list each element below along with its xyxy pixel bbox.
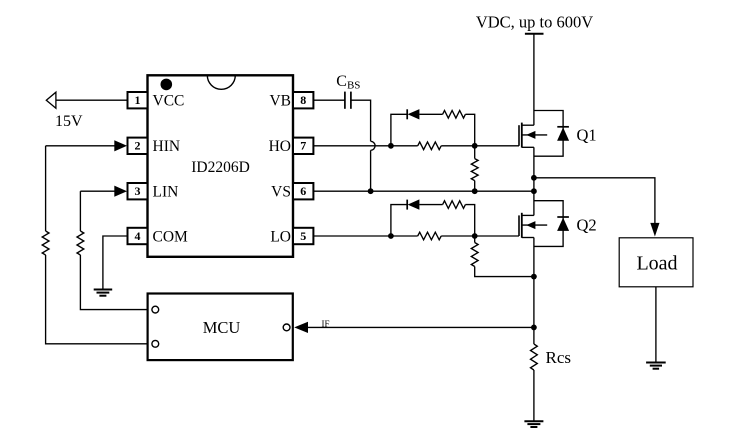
wire pulldown to VS line bbox=[474, 181, 476, 192]
diode D1 (turn-off) bbox=[407, 109, 419, 119]
wire VDC down to Q1 drain bbox=[533, 34, 535, 125]
IC notch bbox=[207, 75, 235, 89]
wire pulldown to Q2 source node bbox=[475, 267, 534, 277]
wire cap to VS node (with hop over HO) bbox=[351, 100, 375, 191]
svg-text:15V: 15V bbox=[55, 113, 83, 130]
ground COM bbox=[94, 289, 113, 291]
wire Q1 gate-network upper branch left bbox=[391, 114, 407, 146]
resistor R-on Q1 bbox=[418, 142, 442, 150]
svg-text:Q2: Q2 bbox=[577, 216, 597, 235]
svg-text:8: 8 bbox=[300, 93, 306, 107]
wire upper branch right down to node B1 bbox=[465, 114, 474, 146]
resistor R-gs Q2 pulldown bbox=[471, 243, 478, 267]
svg-text:7: 7 bbox=[300, 139, 306, 153]
svg-text:Q1: Q1 bbox=[577, 126, 597, 145]
wire A1 to gate resistor bbox=[391, 145, 418, 147]
VDC supply T-bar bbox=[525, 33, 544, 35]
load block bbox=[619, 238, 693, 287]
pin 7 box bbox=[293, 138, 313, 154]
resistor R-LIN bbox=[77, 231, 84, 255]
svg-text:VB: VB bbox=[269, 93, 291, 110]
svg-text:IF: IF bbox=[322, 319, 330, 329]
svg-text:HO: HO bbox=[269, 138, 291, 155]
MCU terminal circle lower-left bbox=[152, 340, 159, 347]
wire HIN input bbox=[46, 145, 115, 147]
wire 15V supply to pin1 bbox=[56, 99, 128, 101]
resistor R-off Q2 bbox=[443, 201, 466, 209]
wire LIN vertical lower to MCU bbox=[80, 255, 151, 310]
wire IF sense line bbox=[308, 326, 534, 328]
wire HIN vertical lower to MCU bbox=[46, 255, 152, 344]
svg-text:Rcs: Rcs bbox=[546, 348, 572, 367]
svg-text:COM: COM bbox=[153, 228, 189, 245]
pin 2 box bbox=[128, 138, 148, 154]
IC pin-1 marker dot bbox=[161, 79, 173, 91]
wire load to ground bbox=[655, 287, 657, 363]
svg-text:LIN: LIN bbox=[153, 184, 179, 201]
svg-text:4: 4 bbox=[135, 229, 141, 243]
transistor Q2 bbox=[519, 213, 547, 238]
wire phase node to load bbox=[534, 178, 655, 224]
pin 8 box bbox=[293, 92, 313, 108]
wire B1 to Q1 gate bbox=[475, 145, 519, 147]
svg-text:HIN: HIN bbox=[153, 138, 181, 155]
arrowhead into pin 2 bbox=[114, 140, 127, 151]
MCU terminal circle right bbox=[283, 324, 290, 331]
pin 4 box bbox=[128, 228, 148, 244]
arrowhead into load bbox=[650, 223, 659, 237]
node A1 junction bbox=[388, 143, 394, 149]
pin 5 box bbox=[293, 228, 313, 244]
wire upper branch right down to node B2 bbox=[465, 205, 474, 236]
svg-text:ID2206D: ID2206D bbox=[191, 159, 250, 176]
junction sense node (Rcs top) bbox=[531, 325, 537, 331]
MCU block bbox=[148, 294, 293, 361]
svg-text:3: 3 bbox=[135, 184, 141, 198]
wire B2 to Q2 gate bbox=[475, 235, 519, 237]
wire sense node to Rcs bbox=[533, 327, 535, 344]
pin 6 box bbox=[293, 183, 313, 199]
svg-text:Load: Load bbox=[636, 253, 677, 275]
wire pin5 LO to gate network bbox=[313, 235, 391, 237]
svg-text:5: 5 bbox=[300, 229, 306, 243]
node B1 junction bbox=[472, 143, 478, 149]
body diode of Q1 bbox=[534, 111, 569, 157]
junction Q1 source to load bbox=[531, 175, 537, 181]
ground Load bbox=[646, 362, 666, 364]
svg-text:VS: VS bbox=[271, 184, 291, 201]
junction VS-main vertical bbox=[531, 188, 537, 194]
svg-text:6: 6 bbox=[300, 184, 306, 198]
svg-text:1: 1 bbox=[135, 93, 141, 107]
wire gate resistor to B2 bbox=[441, 235, 475, 237]
pin 1 box bbox=[128, 92, 148, 108]
svg-text:2: 2 bbox=[135, 139, 141, 153]
svg-text:VDC, up to 600V: VDC, up to 600V bbox=[476, 13, 593, 32]
15V supply arrow symbol bbox=[46, 92, 56, 108]
resistor R-on Q2 bbox=[418, 232, 442, 240]
capacitor CBS bbox=[345, 92, 351, 109]
diode D2 (turn-off) bbox=[407, 199, 419, 209]
MCU terminal circle upper-left bbox=[152, 306, 159, 313]
pin 3 box bbox=[128, 183, 148, 199]
node A2 junction bbox=[388, 233, 394, 239]
svg-text:MCU: MCU bbox=[203, 318, 241, 337]
node B2 junction bbox=[472, 233, 478, 239]
wire HIN vertical upper bbox=[45, 146, 47, 231]
svg-text:LO: LO bbox=[270, 228, 291, 245]
transistor Q1 bbox=[519, 123, 547, 148]
wire LIN vertical upper bbox=[79, 191, 81, 231]
wire pin6 VS line bbox=[313, 190, 534, 192]
wire B2 down to pulldown resistor bbox=[474, 236, 476, 243]
svg-text:VCC: VCC bbox=[153, 93, 185, 110]
wire B1 down to pulldown resistor bbox=[474, 146, 476, 159]
junction cap-VS bbox=[368, 188, 374, 194]
wire pin8 VB to bootstrap cap bbox=[313, 99, 345, 101]
resistor R-gs Q1 pulldown bbox=[471, 159, 478, 181]
wire Rcs to ground bbox=[533, 370, 535, 421]
wire gate resistor to B1 bbox=[441, 145, 475, 147]
resistor Rcs bbox=[531, 344, 538, 370]
wire COM to ground bbox=[103, 236, 128, 290]
wire Q1 source down through VS to Q2 drain bbox=[533, 147, 535, 215]
junction pulldown-VS bbox=[472, 188, 478, 194]
resistor R-off Q1 bbox=[443, 111, 466, 119]
wire Q2 source down to current-sense node bbox=[533, 238, 535, 328]
body diode of Q2 bbox=[534, 201, 569, 247]
wire diode to resistor bbox=[419, 204, 442, 206]
wire pin7 HO to gate network bbox=[313, 145, 391, 147]
wire LIN input bbox=[80, 190, 114, 192]
wire diode to resistor bbox=[419, 113, 442, 115]
ground Rcs bbox=[524, 420, 543, 422]
wire A2 to gate resistor bbox=[391, 235, 418, 237]
wire Q2 gate-network upper branch left bbox=[391, 205, 407, 236]
resistor R-HIN bbox=[42, 231, 49, 255]
arrowhead IF into MCU bbox=[294, 322, 308, 333]
junction Q2 source node bbox=[531, 274, 537, 280]
IC U1 ID2206D body bbox=[148, 75, 294, 256]
arrowhead into pin 3 bbox=[114, 186, 127, 197]
